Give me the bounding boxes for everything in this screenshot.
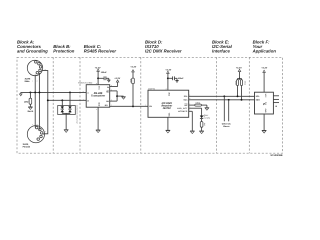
svg-text:CDSOT23-SM712-02: CDSOT23-SM712-02 — [76, 105, 79, 124]
connector J2 XLR5 female — [23, 126, 45, 149]
header Block C — [84, 44, 117, 54]
U2 pin label INT — [184, 104, 188, 107]
chassis ground — [19, 92, 22, 96]
svg-text:UCSNPS: UCSNPS — [178, 110, 188, 113]
resistor 1M to earth — [24, 92, 32, 106]
junction dots shield rail — [29, 91, 71, 93]
ground LED resistor — [199, 131, 204, 134]
resistor 10k INT pulldown — [189, 102, 207, 108]
ground U1 cap — [107, 80, 110, 82]
svg-text:SDA: SDA — [256, 99, 261, 102]
pin numbers male XLR — [32, 68, 45, 83]
svg-text:10kΩ: 10kΩ — [243, 81, 246, 86]
header Block A — [17, 40, 48, 54]
resistor 10k SDA pull-up — [240, 79, 247, 101]
wire SDA — [189, 99, 255, 101]
net data rail B — [48, 99, 86, 101]
wire TVS common — [62, 113, 70, 129]
svg-text:10kΩ: 10kΩ — [234, 81, 237, 86]
label other I2C slaves — [222, 123, 232, 129]
wire other slaves SCL — [223, 96, 225, 121]
node pull-up junction — [239, 78, 241, 80]
node RO junction — [132, 105, 134, 107]
power +3.3V U2 VDD — [165, 68, 171, 90]
svg-text:RS485 Receiver: RS485 Receiver — [84, 49, 117, 54]
svg-text:SN65HVD1780D: SN65HVD1780D — [78, 82, 93, 85]
svg-text:(SOP-8): (SOP-8) — [148, 87, 155, 90]
svg-text:Earth: Earth — [28, 110, 34, 113]
node SDA tap junction — [228, 99, 230, 101]
header Block F — [252, 40, 277, 54]
block frame dashed border — [17, 57, 283, 153]
svg-text:I2C DMX Receiver: I2C DMX Receiver — [145, 49, 182, 54]
wire shield pass-through — [34, 76, 36, 126]
wire data+ pass-through — [43, 71, 48, 134]
TVS protection box — [58, 92, 76, 114]
op IC U1 RS-485 transceiver box — [86, 85, 110, 108]
node U1 VCC junction — [97, 77, 99, 79]
wire SCL — [189, 95, 255, 97]
svg-text:+3.3V: +3.3V — [95, 66, 101, 69]
power +3.3V U3 — [261, 67, 267, 93]
ground U2 cap — [175, 80, 178, 82]
resistor pull-up RO — [129, 72, 134, 106]
svg-text:Activity: Activity — [204, 117, 210, 120]
pin numbers female XLR — [32, 123, 45, 133]
svg-text:+3.3V: +3.3V — [114, 77, 120, 80]
power +3.3V U1 DI pin — [110, 77, 121, 86]
power +3.3V I2C pull-ups — [236, 66, 242, 78]
svg-text:10kΩ: 10kΩ — [195, 102, 200, 105]
svg-text:+3.3V: +3.3V — [261, 67, 267, 70]
svg-text:IS3710: IS3710 — [163, 107, 172, 110]
svg-text:+3.3V: +3.3V — [236, 66, 242, 69]
ground INT resistor — [205, 108, 209, 111]
earth ground symbol — [28, 107, 34, 113]
ground U3 — [262, 114, 267, 133]
wire UCSNPS pin to ground — [189, 111, 193, 131]
TVS diode D1 — [61, 106, 64, 113]
svg-text:GND: GND — [98, 102, 101, 107]
TVS diode D2 — [68, 106, 71, 113]
LED DMX activity — [200, 114, 210, 120]
svg-text:Protection: Protection — [53, 49, 75, 54]
node SCL tap junction — [223, 95, 225, 97]
svg-text:SCH0308B: SCH0308B — [270, 154, 282, 157]
ground RE-DE — [121, 97, 125, 100]
U3 unconnected pins — [273, 96, 279, 106]
wire RE-DE tie — [110, 91, 124, 101]
node U2 VDD junction — [167, 77, 169, 79]
resistor 10k SCL pull-up — [234, 79, 240, 98]
svg-text:Transceiver: Transceiver — [91, 95, 106, 98]
svg-text:+3.3V: +3.3V — [130, 66, 136, 69]
ground U2 VSS — [166, 117, 171, 133]
capacitor 100nF U1 — [98, 71, 109, 80]
U2 pin numbers — [145, 88, 190, 112]
svg-text:Slaves: Slaves — [223, 125, 230, 128]
svg-text:1MΩ: 1MΩ — [24, 100, 29, 103]
connector J1 XLR5 male — [25, 60, 43, 83]
svg-text:SDA: SDA — [184, 99, 189, 102]
header Block D — [145, 40, 182, 54]
wire RO to RX — [110, 105, 148, 107]
svg-text:Male: Male — [25, 80, 31, 83]
svg-text:GND: GND — [264, 109, 267, 114]
power +3.3V U1 VCC — [95, 66, 101, 84]
ground UCSNPS — [190, 131, 195, 134]
IC U3 microcontroller box — [255, 92, 274, 114]
IC U2 IS3710 I2C DMX receiver box — [148, 90, 189, 117]
svg-text:100nF: 100nF — [101, 71, 108, 74]
wire other slaves SDA — [228, 100, 230, 122]
ground U1 GND — [96, 107, 101, 132]
svg-text:LED_ACT: LED_ACT — [177, 107, 188, 110]
svg-text:Female: Female — [23, 146, 31, 149]
resistor LED series — [200, 119, 206, 131]
wire data- pass-through — [38, 75, 40, 126]
svg-text:Interface: Interface — [212, 49, 231, 54]
capacitor 100nF U2 — [168, 76, 184, 80]
junction dots data rail B — [47, 99, 63, 101]
ground TVS — [64, 130, 69, 133]
power +3.3V RO pull-up — [130, 66, 136, 72]
header Block B — [53, 44, 75, 54]
U1 pin numbers — [83, 82, 112, 111]
svg-text:+3.3V: +3.3V — [165, 68, 171, 71]
net shield rail — [21, 91, 86, 93]
svg-text:Application: Application — [252, 49, 277, 54]
svg-text:and Grounding: and Grounding — [17, 49, 48, 54]
svg-text:10kΩ: 10kΩ — [129, 79, 132, 84]
svg-text:100nF: 100nF — [178, 77, 185, 80]
wire LED_ACT — [189, 108, 202, 115]
header Block E — [212, 40, 233, 54]
U1 pin label RE — [106, 90, 109, 93]
